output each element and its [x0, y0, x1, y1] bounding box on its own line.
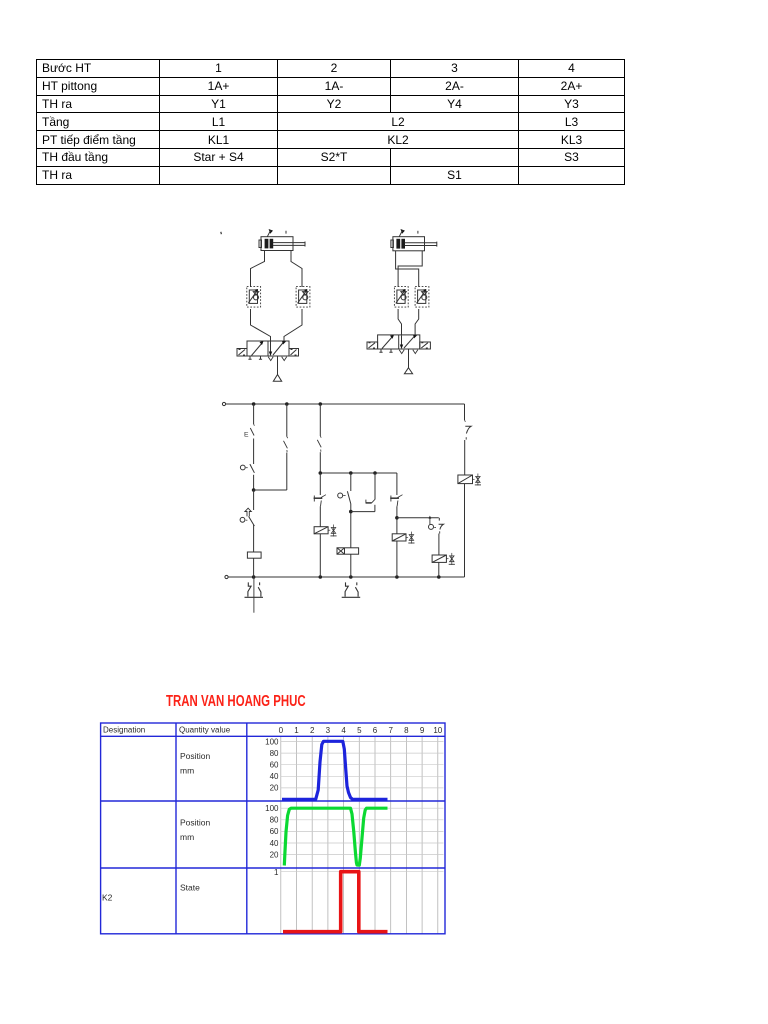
wire left flow valve to valve V1 [251, 309, 271, 341]
svg-text:1: 1 [274, 868, 279, 877]
svg-text:9: 9 [420, 726, 425, 735]
green position curve 2A [284, 808, 387, 865]
valve V2 right chamber paths [399, 335, 418, 354]
solenoid valve coil with X [337, 548, 359, 577]
junction dots bottom rail [252, 575, 441, 579]
chart x-axis numbers [279, 726, 443, 735]
chart header texts [103, 726, 231, 735]
red state curve K2 [283, 872, 388, 932]
branch 3 NC contact [314, 473, 326, 527]
bus line y=517.8 [397, 517, 439, 519]
sequence table [36, 59, 625, 185]
svg-text:4: 4 [341, 726, 346, 735]
row1 horizontal gridlines [281, 742, 444, 788]
branch 3 wire and contact K [317, 404, 321, 473]
svg-text:10: 10 [433, 726, 442, 735]
wire cylinder 2A left port crossing [396, 251, 419, 287]
valve V2 right pilot box [420, 342, 431, 349]
relay coil K1 [247, 552, 261, 577]
svg-text:mm: mm [180, 832, 194, 842]
svg-text:20: 20 [270, 850, 279, 859]
svg-text:100: 100 [265, 804, 279, 813]
junction dot branch6 [395, 516, 399, 520]
svg-text:8: 8 [404, 726, 409, 735]
svg-text:Position: Position [180, 751, 211, 761]
cylinder 1A stroke arrow [267, 229, 286, 237]
branch 6 NC contact [390, 473, 402, 534]
row2 y-axis labels [265, 804, 279, 859]
svg-text:Position: Position [180, 818, 211, 828]
svg-text:Designation: Designation [103, 726, 145, 735]
solenoid symbol below rail middle [342, 582, 361, 597]
5/2 valve V1 body [247, 341, 289, 356]
stray mark [220, 232, 223, 234]
valve V1 exhaust line and silencer triangle [273, 356, 281, 381]
solenoid coil Y2 [392, 532, 414, 577]
branch 1 wire upper [253, 404, 255, 424]
svg-text:mm: mm [180, 766, 194, 776]
flow control valve left of 2A [394, 287, 408, 308]
svg-text:60: 60 [270, 761, 279, 770]
wire cylinder 1A right port [291, 251, 302, 288]
contact S with pushbutton circle [240, 464, 254, 490]
cylinder 2A stroke arrow [399, 229, 418, 237]
5/2 valve V2 body [378, 335, 420, 349]
blue position curve 1A [282, 741, 388, 799]
row2 horizontal gridlines [281, 808, 444, 854]
solenoid coil Y3 [458, 474, 481, 578]
branch 4 contact with circle [338, 473, 351, 548]
contact E (S4 start button) [244, 424, 254, 464]
wire left flow valve to valve V2 [398, 309, 401, 335]
svg-text:6: 6 [373, 726, 378, 735]
cylinder 1A [259, 237, 305, 251]
wire cylinder 2A right port crossing [398, 251, 422, 287]
svg-text:40: 40 [270, 839, 279, 848]
wire cylinder 1A left port [251, 251, 265, 288]
svg-text:1: 1 [294, 726, 299, 735]
svg-text:0: 0 [279, 726, 284, 735]
svg-text:40: 40 [270, 772, 279, 781]
branch 7 roller contact [429, 516, 444, 555]
svg-text:K2: K2 [102, 893, 113, 903]
bus line y=473 [319, 471, 397, 475]
contact with latch symbol [240, 508, 254, 552]
svg-text:60: 60 [270, 827, 279, 836]
wire right flow valve to valve V1 [284, 309, 302, 341]
valve V2 left pilot box [367, 342, 378, 349]
branch 8 right-most wire [465, 404, 472, 475]
branch 2 wire and contact K [254, 404, 288, 490]
row1 y-axis labels [265, 737, 279, 792]
svg-text:State: State [180, 883, 200, 893]
valve V2 exhaust line and silencer triangle [404, 349, 412, 374]
valve V1 right pilot box [289, 349, 299, 357]
svg-text:20: 20 [270, 784, 279, 793]
chart gray gridlines [281, 736, 438, 934]
svg-text:5: 5 [357, 726, 362, 735]
junction dot branch1/branch2 [252, 488, 256, 492]
bottom return rail [225, 575, 465, 578]
flow control valve right of 1A [296, 287, 310, 308]
wire right flow valve to valve V2 [415, 309, 419, 335]
solenoid symbol below rail left [245, 577, 264, 613]
chart blue border [101, 723, 445, 934]
flow control valve right of 2A [415, 287, 429, 308]
valve V1 left pilot box [237, 349, 247, 357]
row3 horizontal gridline [281, 871, 444, 873]
svg-text:Quantity value: Quantity value [179, 726, 231, 735]
cylinder 2A [391, 237, 437, 251]
junction dots top rail [252, 402, 322, 406]
junction dot branch4 [349, 510, 353, 514]
top supply rail [222, 402, 464, 405]
solenoid coil Y4 [432, 553, 455, 577]
valve V1 left chamber paths [248, 341, 263, 359]
branch 1 wire middle [253, 490, 255, 510]
svg-text:3: 3 [326, 726, 331, 735]
svg-text:2: 2 [310, 726, 315, 735]
row label texts [102, 751, 211, 903]
bracket contact branch 5 [351, 473, 375, 512]
valve V1 right chamber paths [268, 341, 287, 361]
valve V2 left chamber paths [379, 335, 394, 353]
svg-text:100: 100 [265, 737, 279, 746]
flow control valve left of 1A [247, 287, 261, 308]
svg-text:80: 80 [270, 749, 279, 758]
svg-text:7: 7 [388, 726, 393, 735]
solenoid coil Y1 [314, 525, 337, 578]
title [166, 693, 306, 711]
svg-text:80: 80 [270, 816, 279, 825]
